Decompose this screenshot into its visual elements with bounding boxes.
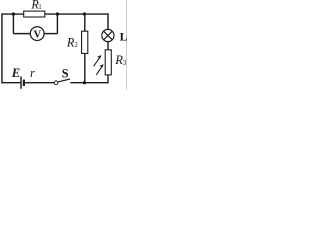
svg-text:3: 3 — [123, 59, 127, 67]
svg-text:V: V — [33, 29, 41, 40]
svg-text:2: 2 — [74, 41, 78, 49]
svg-text:S: S — [62, 67, 69, 81]
svg-text:L: L — [120, 29, 127, 43]
svg-text:1: 1 — [38, 3, 42, 11]
svg-text:r: r — [30, 66, 35, 80]
svg-text:E: E — [11, 66, 20, 80]
